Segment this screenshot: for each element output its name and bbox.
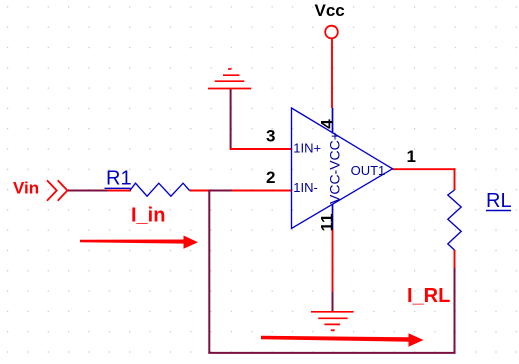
- svg-text:1IN-: 1IN-: [293, 180, 318, 195]
- svg-text:Vcc: Vcc: [315, 1, 345, 20]
- annotation arrow I_in: [80, 236, 198, 249]
- svg-text:RL: RL: [486, 190, 512, 212]
- svg-text:Vin: Vin: [13, 179, 39, 198]
- pin 1 lead / wire to RL: [393, 168, 456, 170]
- svg-text:1IN+: 1IN+: [293, 140, 321, 155]
- svg-text:R1: R1: [106, 168, 132, 190]
- wire junction to pin2: [208, 190, 231, 192]
- op-amp pin 4 inner lead: [332, 108, 334, 134]
- svg-text:OUT1: OUT1: [351, 163, 386, 178]
- power symbol Vcc circle: [325, 26, 338, 39]
- wire red over R1 left lead: [108, 190, 132, 192]
- op-amp pin 11 inner lead: [332, 204, 334, 230]
- ground bottom: [311, 312, 354, 330]
- resistor RL: [448, 190, 461, 250]
- svg-text:4: 4: [317, 119, 336, 129]
- svg-text:VCC-VCC+: VCC-VCC+: [326, 132, 342, 204]
- pin 2 lead: [232, 190, 292, 192]
- svg-text:1: 1: [407, 147, 416, 166]
- wire bottom horizontal: [208, 352, 455, 354]
- wire Vcc to pin 4: [331, 39, 333, 108]
- annotation arrow I_RL: [261, 333, 424, 346]
- pin 3 lead: [230, 148, 292, 150]
- svg-text:11: 11: [317, 214, 336, 232]
- resistor R1: [130, 183, 190, 196]
- wire RL lower lead: [454, 250, 456, 268]
- wire RL top lead: [454, 168, 456, 190]
- wire Vin port to R1: [67, 190, 107, 192]
- wire vertical junction down: [208, 190, 210, 353]
- wire bottom ground stub: [332, 292, 334, 312]
- op-amp U1 triangle body: [292, 108, 393, 229]
- svg-text:2: 2: [266, 168, 275, 187]
- svg-text:3: 3: [266, 127, 275, 146]
- wire R1 right to junction: [190, 190, 209, 192]
- svg-text:I_in: I_in: [131, 205, 165, 227]
- wire top ground stub: [230, 89, 232, 150]
- svg-text:I_RL: I_RL: [407, 285, 450, 307]
- wire RL bottom to bottom wire: [454, 267, 456, 353]
- wire pin 11 to ground: [332, 230, 334, 293]
- ground top (flipped): [208, 69, 251, 89]
- port Vin chevrons: [47, 180, 67, 200]
